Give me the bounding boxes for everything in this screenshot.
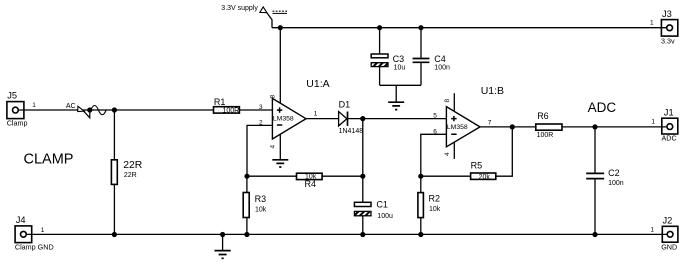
svg-text:3: 3 [259,104,263,111]
svg-text:R6: R6 [537,111,549,121]
svg-text:22R: 22R [124,172,137,179]
svg-text:7: 7 [488,120,492,127]
svg-text:1: 1 [650,20,654,27]
svg-text:3.3v: 3.3v [661,37,675,46]
svg-text:R2: R2 [429,193,441,203]
svg-text:J3: J3 [662,9,672,19]
svg-text:6: 6 [433,128,437,135]
svg-text:C2: C2 [608,168,620,178]
svg-text:1: 1 [314,111,318,118]
svg-text:D1: D1 [339,100,351,110]
svg-text:1: 1 [651,118,655,125]
svg-text:R3: R3 [255,194,267,204]
svg-text:Clamp: Clamp [7,118,28,127]
svg-text:CLAMP: CLAMP [24,152,74,168]
svg-text:U1:A: U1:A [306,78,329,90]
svg-text:10k: 10k [429,206,441,213]
svg-text:R4: R4 [305,179,317,189]
svg-text:10k: 10k [305,173,317,180]
svg-text:22R: 22R [123,160,143,171]
svg-text:R5: R5 [471,161,483,171]
svg-text:1N4148: 1N4148 [339,128,364,135]
svg-text:ADC: ADC [588,100,617,115]
svg-text:100R: 100R [223,108,240,115]
svg-text:100R: 100R [537,132,554,139]
svg-text:4: 4 [270,145,277,149]
svg-text:100u: 100u [377,213,393,220]
svg-text:ADC: ADC [662,134,677,143]
svg-text:J5: J5 [7,90,17,100]
svg-text:R1: R1 [214,97,226,107]
svg-text:10u: 10u [394,64,406,71]
svg-text:8: 8 [270,95,277,99]
svg-text:J2: J2 [663,215,673,225]
svg-text:2: 2 [259,120,263,127]
svg-text:20k: 20k [479,174,491,181]
svg-text:AC: AC [66,103,76,110]
svg-text:U1:B: U1:B [481,85,504,97]
svg-text:LM358: LM358 [447,124,468,131]
svg-text:100n: 100n [608,180,624,187]
svg-text:1: 1 [41,227,45,234]
svg-text:GND: GND [661,243,677,252]
svg-text:C4: C4 [434,54,446,64]
svg-text:3.3V supply: 3.3V supply [221,5,258,12]
svg-text:4: 4 [444,152,451,156]
svg-text:1: 1 [32,102,36,109]
svg-text:10k: 10k [255,206,267,213]
svg-text:1: 1 [650,226,654,233]
svg-text:5: 5 [433,112,437,119]
svg-text:Clamp GND: Clamp GND [15,243,54,252]
svg-text:LM358: LM358 [273,116,294,123]
svg-text:J1: J1 [664,107,674,117]
svg-text:C1: C1 [376,200,388,210]
svg-text:8: 8 [444,99,451,103]
svg-text:C3: C3 [393,54,405,64]
svg-text:100n: 100n [434,64,450,71]
svg-text:J4: J4 [16,215,26,225]
